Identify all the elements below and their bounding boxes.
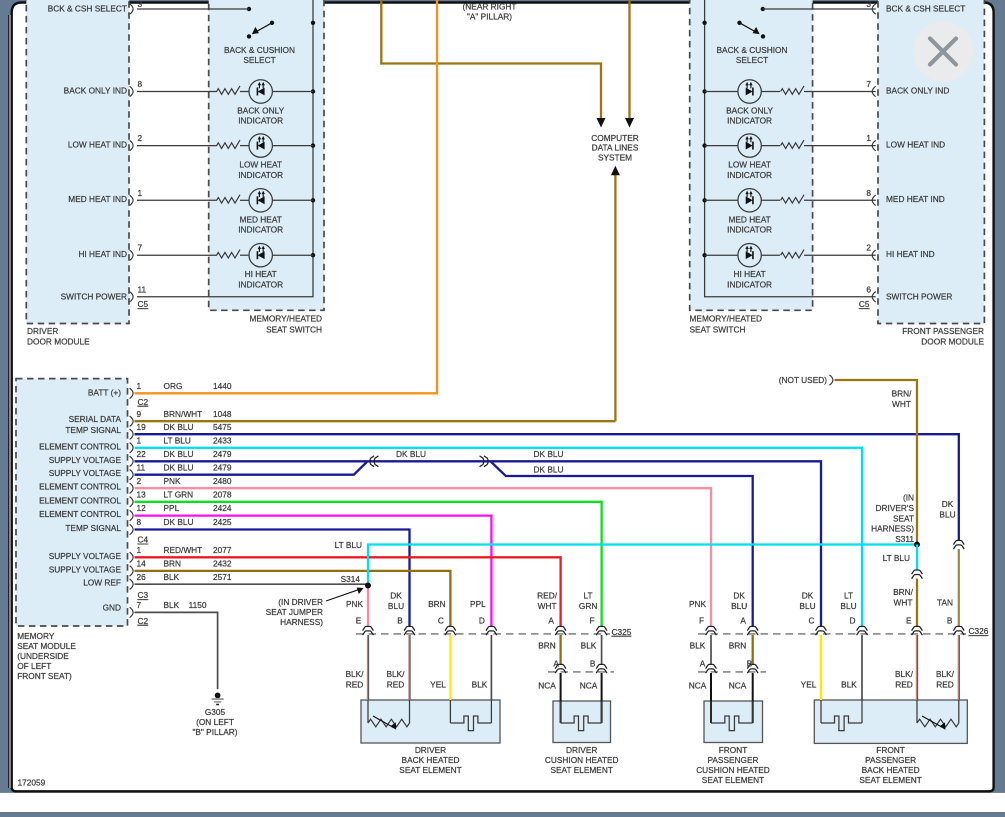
svg-text:2: 2: [866, 243, 871, 253]
wire BLK (driver F->B): [601, 635, 603, 665]
svg-text:CUSHION HEATED: CUSHION HEATED: [545, 755, 619, 765]
svg-text:TEMP SIGNAL: TEMP SIGNAL: [65, 425, 121, 435]
svg-text:A: A: [700, 659, 706, 669]
column label LTGRN F (driver): [579, 591, 597, 626]
connector: [747, 664, 758, 673]
svg-text:SEAT ELEMENT: SEAT ELEMENT: [702, 775, 764, 785]
svg-text:HARNESS): HARNESS): [280, 617, 323, 627]
svg-text:RED: RED: [895, 680, 913, 690]
svg-text:BRN/: BRN/: [893, 587, 914, 597]
svg-text:11: 11: [137, 462, 146, 472]
svg-text:DK BLU: DK BLU: [534, 464, 564, 474]
svg-text:MEMORY: MEMORY: [17, 631, 55, 641]
svg-text:MED HEAT: MED HEAT: [240, 214, 282, 224]
pin 1 BATT (+): [88, 381, 232, 399]
memory seat module box: [16, 379, 128, 626]
pin 13 ELEMENT CONTROL: [39, 489, 232, 507]
connector: [706, 664, 717, 673]
driver cushion element internals: [560, 701, 562, 723]
wire: [761, 254, 780, 256]
C326 dashed connector line: [698, 633, 966, 635]
C325 inline connector: [555, 626, 566, 635]
svg-text:SEAT MODULE: SEAT MODULE: [17, 641, 76, 651]
driver memory/heated seat switch box: [209, 0, 324, 310]
wire PNK 2480: [135, 488, 712, 626]
svg-text:BACK ONLY: BACK ONLY: [726, 106, 773, 116]
wire BLK (passenger D): [861, 635, 863, 700]
wire TAN to C326 B: [958, 549, 960, 626]
svg-text:NCA: NCA: [689, 681, 707, 691]
svg-text:SUPPLY VOLTAGE: SUPPLY VOLTAGE: [49, 468, 122, 478]
svg-text:DOOR MODULE: DOOR MODULE: [921, 337, 984, 347]
pin 8 TEMP SIGNAL: [65, 517, 231, 535]
pin: [872, 250, 876, 260]
svg-text:INDICATOR: INDICATOR: [238, 225, 283, 235]
svg-text:BRN/WHT: BRN/WHT: [164, 409, 203, 419]
svg-text:INDICATOR: INDICATOR: [238, 279, 283, 289]
wire: passenger back only indicator row: [705, 91, 738, 93]
svg-text:MED HEAT IND: MED HEAT IND: [68, 194, 127, 204]
svg-text:FRONT PASSENGER: FRONT PASSENGER: [902, 326, 984, 336]
svg-text:OF LEFT: OF LEFT: [17, 661, 51, 671]
pin 14 SUPPLY VOLTAGE: [49, 559, 232, 577]
svg-text:INDICATOR: INDICATOR: [238, 116, 283, 126]
svg-text:1: 1: [137, 381, 142, 391]
pin 11 SUPPLY VOLTAGE: [49, 462, 232, 480]
svg-text:RED/WHT: RED/WHT: [164, 545, 203, 555]
svg-text:PPL: PPL: [470, 599, 486, 609]
svg-text:BLK/: BLK/: [895, 669, 914, 679]
C325 inline connector: [404, 626, 415, 635]
wire: passenger bck&csh select to pin: [763, 8, 876, 10]
wire YEL (passenger C): [820, 635, 822, 700]
wire LT BLU below S311: [916, 545, 918, 570]
svg-text:WHT: WHT: [894, 598, 913, 608]
LED hi heat indicator: [249, 244, 272, 267]
svg-text:SEAT SWITCH: SEAT SWITCH: [266, 325, 322, 335]
svg-text:172059: 172059: [18, 778, 46, 788]
wire ORG 1440 batt: [135, 0, 438, 393]
svg-text:F: F: [590, 615, 595, 625]
variable resistor (temp sensor): [917, 719, 959, 727]
wire: data line from passenger side: [628, 0, 630, 118]
svg-text:MED HEAT: MED HEAT: [728, 214, 770, 224]
C326 inline connector: [912, 626, 923, 635]
svg-text:DRIVER: DRIVER: [27, 326, 58, 336]
bottom white strip: [0, 793, 1005, 812]
svg-text:BRN: BRN: [428, 599, 446, 609]
svg-text:SUPPLY VOLTAGE: SUPPLY VOLTAGE: [49, 455, 122, 465]
svg-text:MED HEAT IND: MED HEAT IND: [886, 194, 945, 204]
svg-text:BCK & CSH SELECT: BCK & CSH SELECT: [886, 4, 965, 14]
junction: [702, 89, 706, 93]
wire BLK/RED (passenger E): [915, 635, 917, 700]
column label DKBLU B (driver): [388, 591, 404, 626]
passenger memory/heated seat switch box: [690, 0, 813, 310]
svg-text:7: 7: [138, 243, 143, 253]
resistor: [217, 250, 240, 258]
wire BLK/RED (passenger B): [957, 635, 959, 700]
pin 26 LOW REF: [83, 572, 232, 590]
svg-text:A: A: [548, 615, 554, 625]
svg-text:S314: S314: [341, 574, 361, 584]
resistor: [781, 250, 804, 258]
svg-text:DOOR MODULE: DOOR MODULE: [27, 337, 90, 347]
junction: [702, 253, 706, 257]
svg-text:INDICATOR: INDICATOR: [238, 170, 283, 180]
svg-text:1150: 1150: [189, 600, 207, 610]
resistor: [217, 195, 240, 203]
svg-text:3: 3: [138, 0, 143, 9]
wire: passenger low heat indicator row: [705, 145, 738, 147]
wire: [240, 91, 249, 93]
svg-text:(IN DRIVER: (IN DRIVER: [278, 597, 323, 607]
pin: [130, 140, 134, 150]
wire BLK (passenger F->A): [710, 635, 712, 665]
svg-text:2571: 2571: [213, 572, 232, 582]
svg-text:WHT: WHT: [892, 399, 911, 409]
svg-text:A: A: [740, 615, 746, 625]
svg-text:BACK & CUSHION: BACK & CUSHION: [717, 45, 788, 55]
svg-text:PNK: PNK: [689, 599, 707, 609]
svg-text:BLU: BLU: [799, 601, 815, 611]
C325 inline connector: [486, 626, 497, 635]
svg-text:INDICATOR: INDICATOR: [727, 225, 772, 235]
svg-text:E: E: [356, 615, 362, 625]
resistor: [217, 140, 240, 148]
close (X) button: [913, 22, 973, 82]
wire BLK/RED (driver E): [366, 635, 368, 700]
svg-text:DK: DK: [802, 591, 814, 601]
svg-text:LT BLU: LT BLU: [164, 435, 191, 445]
svg-text:(NOT USED): (NOT USED): [779, 375, 827, 385]
LED back only indicator: [249, 80, 272, 103]
C325 inline connector: [445, 626, 456, 635]
pin: [872, 195, 876, 205]
heater element: [821, 716, 862, 731]
front passenger back heated seat element box: [814, 700, 967, 743]
svg-text:SEAT JUMPER: SEAT JUMPER: [266, 607, 323, 617]
LED low heat indicator: [249, 134, 272, 157]
svg-text:HI HEAT: HI HEAT: [734, 269, 766, 279]
svg-text:HI HEAT IND: HI HEAT IND: [886, 249, 935, 259]
wire: driver hi heat indicator row: [137, 254, 217, 256]
wire: passenger med heat indicator row: [705, 199, 738, 201]
C326 inline connector: [747, 626, 758, 635]
svg-text:BRN: BRN: [164, 559, 182, 569]
svg-text:BLK: BLK: [690, 641, 706, 651]
svg-text:C: C: [809, 615, 815, 625]
svg-text:DK: DK: [733, 591, 745, 601]
svg-text:C3: C3: [138, 590, 149, 600]
passenger cushion element internals: [710, 701, 712, 723]
arrowhead: [597, 118, 606, 128]
svg-text:BLU: BLU: [731, 601, 747, 611]
svg-text:2432: 2432: [213, 559, 232, 569]
junction: [702, 198, 706, 202]
svg-text:YEL: YEL: [801, 680, 817, 690]
svg-text:PNK: PNK: [346, 599, 364, 609]
C326 inline connector: [706, 626, 717, 635]
driver door module pin labels: [48, 4, 127, 302]
svg-text:YEL: YEL: [430, 680, 446, 690]
svg-text:BACK ONLY: BACK ONLY: [237, 106, 284, 116]
svg-text:BLK/: BLK/: [936, 669, 955, 679]
svg-text:GND: GND: [103, 602, 121, 612]
C326 inline connector: [857, 626, 868, 635]
svg-text:ELEMENT CONTROL: ELEMENT CONTROL: [39, 495, 121, 505]
pin: driver bck&csh select: [130, 4, 134, 14]
svg-text:12: 12: [137, 503, 147, 513]
wire: passenger hi heat indicator row: [705, 254, 738, 256]
svg-text:2: 2: [138, 133, 143, 143]
svg-text:8: 8: [138, 79, 143, 89]
svg-text:B: B: [747, 659, 753, 669]
splice connector ((: [370, 456, 379, 467]
svg-text:BLK: BLK: [164, 572, 180, 582]
svg-text:2077: 2077: [213, 545, 232, 555]
svg-text:MEMORY/HEATED: MEMORY/HEATED: [249, 314, 322, 324]
svg-text:26: 26: [137, 572, 147, 582]
wire: [272, 91, 313, 93]
svg-text:3: 3: [866, 0, 871, 9]
variable resistor (temp sensor): [368, 719, 410, 727]
wire LT BLU jumper S314 to S311: [368, 545, 917, 586]
svg-text:1: 1: [137, 435, 142, 445]
svg-text:22: 22: [137, 449, 147, 459]
wire: driver back only indicator row: [137, 91, 217, 93]
wire DK BLU fork to passenger cushion: [491, 461, 753, 626]
svg-text:BLU: BLU: [939, 510, 955, 520]
svg-text:C2: C2: [138, 397, 149, 407]
svg-text:B: B: [947, 615, 953, 625]
C326 inline connector: [816, 626, 827, 635]
svg-text:1: 1: [137, 545, 142, 555]
svg-text:GRN: GRN: [579, 601, 597, 611]
svg-text:F: F: [699, 615, 704, 625]
svg-text:5475: 5475: [213, 422, 232, 432]
svg-text:DRIVER: DRIVER: [415, 745, 446, 755]
wire BRN/WHT from not-used pin: [835, 380, 918, 545]
svg-text:LT: LT: [844, 591, 853, 601]
svg-text:(IN: (IN: [903, 493, 914, 503]
svg-text:ORG: ORG: [164, 381, 183, 391]
wire: driver low heat indicator row: [137, 145, 217, 147]
column label RED/WHT A (driver): [537, 591, 558, 626]
svg-text:LT GRN: LT GRN: [164, 489, 194, 499]
svg-text:BACK ONLY IND: BACK ONLY IND: [64, 85, 127, 95]
ground G305 symbol: [212, 693, 224, 705]
wire: [804, 145, 876, 147]
svg-text:DATA LINES: DATA LINES: [592, 143, 639, 153]
svg-text:G305: G305: [205, 707, 226, 717]
second connector dashes (driver cushion): [548, 671, 614, 673]
svg-text:FRONT SEAT): FRONT SEAT): [17, 671, 72, 681]
wire RED/WHT 2077: [135, 557, 561, 626]
column label BRN C (driver): [428, 599, 446, 625]
svg-text:13: 13: [137, 489, 147, 499]
svg-text:BLK/: BLK/: [387, 669, 406, 679]
svg-text:LOW HEAT: LOW HEAT: [728, 160, 771, 170]
svg-text:LT BLU: LT BLU: [883, 553, 910, 563]
svg-text:COMPUTER: COMPUTER: [591, 133, 638, 143]
svg-text:NCA: NCA: [580, 681, 598, 691]
wire: [272, 145, 313, 147]
switch: driver back & cushion select: [247, 7, 274, 39]
svg-text:HI HEAT: HI HEAT: [245, 269, 277, 279]
svg-text:PPL: PPL: [164, 503, 180, 513]
svg-text:2480: 2480: [213, 476, 232, 486]
wire: [240, 199, 249, 201]
svg-text:LOW HEAT IND: LOW HEAT IND: [68, 139, 127, 149]
svg-text:DK BLU: DK BLU: [396, 449, 426, 459]
svg-text:SELECT: SELECT: [243, 55, 275, 65]
svg-text:1440: 1440: [213, 381, 232, 391]
wire DK BLU 2479 supply voltage: [135, 461, 822, 626]
wire: driver bck&csh select to switch: [137, 8, 249, 10]
svg-text:7: 7: [137, 600, 142, 610]
wire: data line from driver door module: [381, 0, 601, 118]
pin 19 TEMP SIGNAL: [65, 422, 231, 440]
svg-text:PNK: PNK: [164, 476, 182, 486]
passenger door module pin labels: [886, 4, 965, 302]
switch: passenger back & cushion select: [737, 7, 765, 39]
svg-text:C: C: [438, 615, 444, 625]
svg-text:SELECT: SELECT: [736, 55, 768, 65]
page background card: [8, 15, 13, 788]
svg-text:SEAT SWITCH: SEAT SWITCH: [690, 325, 746, 335]
driver door module box: [26, 0, 129, 324]
svg-text:CUSHION HEATED: CUSHION HEATED: [696, 765, 770, 775]
junction: [311, 143, 315, 147]
svg-text:A: A: [553, 659, 559, 669]
svg-text:DRIVER: DRIVER: [566, 745, 597, 755]
wire PPL 2424: [135, 516, 492, 627]
LED med heat indicator: [249, 189, 272, 212]
C325 inline connector: [596, 626, 607, 635]
svg-text:ELEMENT CONTROL: ELEMENT CONTROL: [39, 441, 121, 451]
svg-text:SEAT ELEMENT: SEAT ELEMENT: [399, 765, 461, 775]
pin: [130, 250, 134, 260]
svg-text:8: 8: [866, 188, 871, 198]
svg-text:BLK: BLK: [164, 600, 180, 610]
svg-text:C4: C4: [138, 535, 149, 545]
wire: [272, 199, 313, 201]
svg-text:DK BLU: DK BLU: [164, 449, 194, 459]
wire LT BLU 2433 element control: [135, 448, 863, 626]
svg-text:SUPPLY VOLTAGE: SUPPLY VOLTAGE: [49, 564, 122, 574]
wire LT GRN 2078: [135, 502, 602, 626]
column label DKBLU A (passenger): [731, 591, 747, 626]
wire BRN/WHT to C326 E: [916, 579, 918, 627]
svg-text:ELEMENT CONTROL: ELEMENT CONTROL: [39, 482, 121, 492]
second connector dashes (passenger cushion): [698, 671, 766, 673]
LED med heat indicator (passenger): [738, 189, 761, 212]
pin 1 SUPPLY VOLTAGE: [49, 545, 232, 563]
svg-text:14: 14: [137, 559, 147, 569]
svg-text:S311: S311: [895, 534, 914, 544]
wire NCA: [752, 673, 754, 723]
driver back element internals: [367, 700, 369, 723]
svg-text:SEAT ELEMENT: SEAT ELEMENT: [859, 775, 921, 785]
wire: [804, 199, 876, 201]
resistor: [781, 195, 804, 203]
svg-text:FRONT: FRONT: [876, 745, 905, 755]
svg-text:7: 7: [866, 79, 871, 89]
svg-text:B: B: [397, 615, 403, 625]
heater element: [450, 716, 491, 731]
svg-text:6: 6: [866, 284, 871, 294]
wire BRN (driver A): [559, 635, 561, 665]
wire DK BLU 2425 temp signal: [135, 530, 410, 627]
column label DKBLU C (passenger): [799, 591, 815, 626]
svg-text:INDICATOR: INDICATOR: [727, 116, 772, 126]
front passenger door module box: [878, 0, 984, 324]
wire BRN 2432: [135, 571, 451, 626]
svg-text:BLK: BLK: [581, 641, 597, 651]
splice S311: [914, 542, 920, 548]
pin: [130, 195, 134, 205]
wire PNK below S314: [367, 586, 369, 627]
svg-text:C325: C325: [612, 627, 632, 637]
resistor: [217, 86, 240, 94]
pin: passenger switch power: [872, 292, 876, 302]
pin: driver switch power: [130, 292, 134, 302]
svg-text:BLU: BLU: [388, 601, 404, 611]
svg-text:FRONT: FRONT: [719, 745, 748, 755]
annotation arrow: [326, 590, 359, 601]
svg-text:SYSTEM: SYSTEM: [598, 152, 632, 162]
svg-text:D: D: [850, 615, 856, 625]
svg-text:9: 9: [137, 409, 142, 419]
svg-text:BRN: BRN: [729, 641, 747, 651]
svg-text:BACK HEATED: BACK HEATED: [402, 755, 460, 765]
column label PNK F (passenger): [689, 599, 707, 625]
pin 9 SERIAL DATA: [69, 409, 232, 427]
svg-text:SUPPLY VOLTAGE: SUPPLY VOLTAGE: [49, 551, 122, 561]
resistor: [781, 86, 804, 94]
column label PNK E (driver): [346, 599, 364, 625]
pin 22 SUPPLY VOLTAGE: [49, 449, 232, 467]
driver back heated seat element box: [361, 700, 500, 743]
svg-text:LOW HEAT IND: LOW HEAT IND: [886, 139, 945, 149]
svg-text:2424: 2424: [213, 503, 232, 513]
inline connector: [953, 540, 964, 549]
svg-text:(UNDERSIDE: (UNDERSIDE: [17, 651, 69, 661]
svg-text:E: E: [906, 615, 912, 625]
wire: [761, 91, 780, 93]
wire: [240, 254, 249, 256]
svg-text:DK: DK: [390, 591, 402, 601]
svg-text:BACK HEATED: BACK HEATED: [862, 765, 920, 775]
wire NCA (driver A): [560, 673, 562, 723]
svg-text:LT BLU: LT BLU: [335, 540, 362, 550]
column label LTBLU D (passenger): [840, 591, 856, 626]
svg-text:BACK & CUSHION: BACK & CUSHION: [224, 45, 295, 55]
svg-text:C5: C5: [859, 299, 870, 309]
splice S314: [365, 583, 371, 589]
junction: [311, 253, 315, 257]
heater wires: [449, 700, 451, 723]
wire BRN (passenger A->B): [752, 635, 754, 665]
svg-text:BLK/: BLK/: [346, 669, 365, 679]
splice connector )): [480, 456, 489, 467]
svg-text:BACK ONLY IND: BACK ONLY IND: [886, 85, 949, 95]
svg-text:(NEAR RIGHT: (NEAR RIGHT: [463, 1, 517, 11]
svg-text:BLK: BLK: [472, 680, 488, 690]
svg-text:DRIVER'S: DRIVER'S: [876, 503, 915, 513]
resistor: [781, 140, 804, 148]
